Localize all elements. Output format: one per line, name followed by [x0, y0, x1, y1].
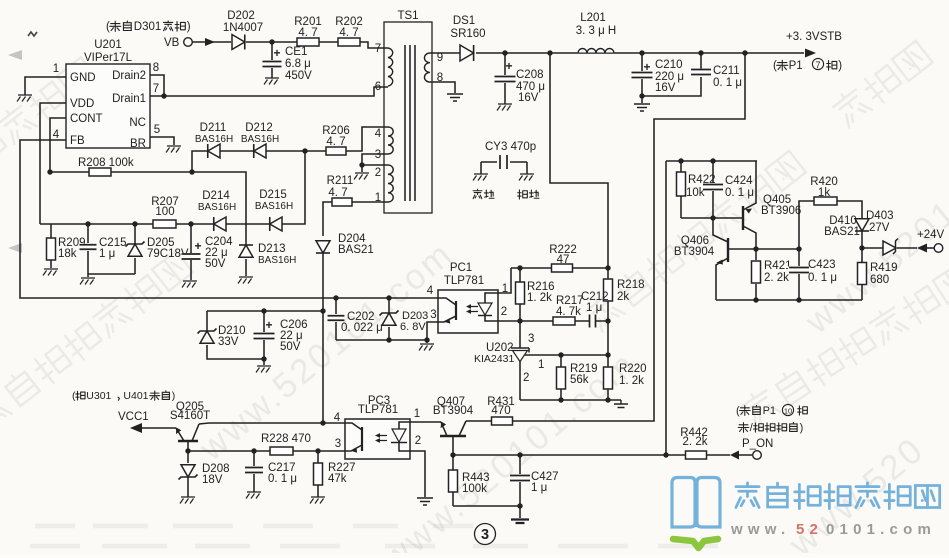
- svg-text:R208 100k: R208 100k: [78, 157, 134, 169]
- svg-text:2k: 2k: [617, 291, 629, 303]
- svg-text:D301: D301: [134, 21, 162, 33]
- node D410/R419/D403 junction: [859, 245, 864, 250]
- ground at PC3 pin2: [417, 498, 433, 505]
- wire U201 BR pin 5: [150, 137, 174, 145]
- node C208 junction: [502, 50, 507, 55]
- svg-text:680: 680: [870, 274, 889, 286]
- wire R443/C427 bottom: [453, 506, 520, 518]
- svg-text:BAS16H: BAS16H: [255, 201, 293, 212]
- svg-text:): ): [187, 21, 191, 33]
- wire +3.3V rail: [476, 52, 804, 54]
- node (to P1 pin7) note: [773, 58, 842, 72]
- wire R201 to R202: [319, 41, 339, 43]
- svg-text:4. 7k: 4. 7k: [556, 306, 581, 318]
- ground at R209: [43, 269, 58, 276]
- wire C202/D203 bottom line to PC1 pin3: [336, 322, 438, 340]
- capacitor C208 470u 16V: [494, 53, 546, 104]
- node D211 line link: [189, 169, 194, 174]
- wire to aux ground: [361, 165, 363, 172]
- wire arrow on VB line: [205, 38, 215, 46]
- svg-text:2: 2: [523, 372, 529, 384]
- svg-text:P_ON: P_ON: [742, 438, 773, 450]
- svg-text:0. 1 μ: 0. 1 μ: [268, 473, 297, 485]
- svg-text:BAS21: BAS21: [338, 244, 374, 256]
- ground below C210: [641, 96, 643, 103]
- ground at CE1: [264, 78, 279, 85]
- svg-text:VIPer17L: VIPer17L: [84, 52, 133, 64]
- capacitor CE1 6.8u 450V: [262, 42, 313, 82]
- resistor R201 4.7: [294, 16, 322, 46]
- wire U201 FB down and right (feedback line): [20, 140, 438, 298]
- svg-text:1: 1: [538, 359, 544, 371]
- ground cold (leng di): [518, 174, 539, 199]
- node VCC1 output arrow: [72, 390, 176, 433]
- transistor Q405 BT3906: [743, 161, 801, 249]
- svg-text:FB: FB: [70, 135, 85, 147]
- svg-text:L201: L201: [580, 12, 606, 24]
- diode DS1 SR160: [450, 15, 485, 61]
- svg-text:BR: BR: [130, 138, 146, 150]
- resistor R421 2.2k: [752, 249, 792, 300]
- svg-text:C208: C208: [516, 69, 544, 81]
- capacitor CY3 470p: [481, 141, 536, 174]
- wire R202 to TS1 pin 7: [360, 42, 388, 48]
- svg-text:450V: 450V: [285, 70, 312, 82]
- diode D213 BAS16H: [239, 243, 296, 276]
- svg-text:3: 3: [335, 438, 341, 450]
- svg-text:3. 3 μ H: 3. 3 μ H: [576, 25, 617, 37]
- node C424 bottom / Q406 collector: [710, 215, 715, 220]
- svg-text:GND: GND: [70, 72, 96, 84]
- ground at TS1 pin8: [447, 94, 463, 101]
- resistor R219 56k: [557, 355, 598, 400]
- ground at C427: [511, 520, 529, 524]
- capacitor C204 22u 50V: [181, 221, 234, 280]
- capacitor C424 0.1u: [702, 158, 754, 218]
- svg-text:16V: 16V: [518, 92, 539, 104]
- svg-text:10: 10: [784, 407, 792, 416]
- wire R217 line: [520, 320, 587, 322]
- node C206 line junction: [320, 308, 325, 313]
- svg-text:2: 2: [415, 435, 421, 447]
- logo book icon: [672, 478, 720, 549]
- svg-text:1 μ: 1 μ: [586, 302, 602, 314]
- wire PC3 pin2 to ground: [410, 451, 425, 497]
- diode D214 BAS16H: [198, 190, 236, 231]
- svg-text:0101.com: 0101.com: [826, 521, 936, 538]
- wire D202 to R201: [246, 41, 297, 43]
- svg-text:3: 3: [430, 309, 436, 321]
- svg-text:470: 470: [491, 405, 510, 417]
- svg-text:4: 4: [375, 128, 382, 140]
- ground at divider bottom: [614, 400, 628, 408]
- svg-text:CY3 470p: CY3 470p: [485, 141, 536, 153]
- svg-text:D202: D202: [227, 10, 255, 22]
- svg-text:6: 6: [375, 81, 381, 93]
- svg-text:0. 1 μ: 0. 1 μ: [713, 77, 742, 89]
- wire D211 line: [192, 127, 388, 172]
- svg-text:3: 3: [375, 149, 381, 161]
- node R216 top: [517, 265, 522, 270]
- svg-text:TS1: TS1: [397, 10, 418, 22]
- svg-text:Drain2: Drain2: [112, 70, 146, 82]
- logo url text: [730, 521, 936, 538]
- svg-text:+: +: [265, 318, 272, 332]
- node R220 top: [605, 352, 610, 357]
- wire U201 Drain2 pin 8: [150, 75, 164, 96]
- svg-text:4. 7: 4. 7: [298, 27, 317, 39]
- svg-text:+24V: +24V: [917, 229, 945, 241]
- svg-text:33V: 33V: [218, 336, 239, 348]
- svg-text:0. 022 μ: 0. 022 μ: [341, 322, 383, 334]
- diode D210 33V zener: [198, 311, 265, 359]
- svg-text:BT3904: BT3904: [674, 246, 715, 258]
- svg-text:50V: 50V: [280, 341, 301, 353]
- svg-text:+: +: [194, 239, 201, 253]
- node Q405 collector / Q406 base: [753, 246, 758, 251]
- node +24V input terminal: [917, 229, 945, 253]
- transistor Q406 BT3904: [674, 218, 756, 300]
- node VB input terminal: [106, 21, 192, 49]
- svg-text:(: (: [106, 21, 110, 33]
- node C210/C211 ground junction: [639, 93, 644, 98]
- svg-text:4: 4: [427, 285, 434, 297]
- inductor L201 3.3uH: [576, 12, 617, 53]
- capacitor C427 1u: [509, 452, 559, 506]
- resistor R208 100k: [47, 157, 246, 245]
- svg-text:27V: 27V: [869, 222, 890, 234]
- svg-text:+3. 3VSTB: +3. 3VSTB: [786, 31, 842, 43]
- svg-text:VCC1: VCC1: [118, 411, 149, 423]
- svg-text:U301: U301: [86, 390, 111, 402]
- svg-text:+: +: [643, 60, 650, 74]
- wire TS1 pin9 to DS1: [430, 52, 460, 54]
- svg-text:4. 7: 4. 7: [339, 27, 358, 39]
- svg-text:R419: R419: [870, 262, 898, 274]
- diode D202 1N4007: [223, 10, 263, 50]
- capacitor C212 1u: [581, 291, 609, 328]
- svg-text:6. 8V: 6. 8V: [400, 321, 426, 333]
- svg-text:NC: NC: [129, 117, 146, 129]
- svg-text:1: 1: [414, 408, 420, 420]
- svg-text:1: 1: [53, 63, 59, 75]
- ground at R227: [310, 497, 325, 504]
- node +3.3VSTB output arrow: [786, 31, 842, 58]
- wire R422/C424 bottom to Q405 base: [681, 217, 742, 219]
- svg-text:5: 5: [154, 124, 160, 136]
- wire arrow on P_ON line: [730, 451, 739, 460]
- svg-text:D211: D211: [200, 122, 227, 134]
- wire P_ON line: [453, 454, 752, 456]
- svg-text:7: 7: [375, 43, 381, 55]
- resistor R207 100: [151, 196, 179, 228]
- wire VB to D202: [192, 41, 231, 43]
- diode D211 BAS16H: [195, 122, 233, 158]
- svg-text:56k: 56k: [570, 374, 589, 386]
- svg-text:7: 7: [153, 83, 159, 95]
- svg-text:BAS16H: BAS16H: [195, 134, 233, 145]
- transformer TS1: [375, 10, 443, 213]
- svg-text:3: 3: [481, 527, 489, 543]
- svg-text:2. 2k: 2. 2k: [683, 436, 708, 448]
- wire PC1 pin2 to R216 bottom: [498, 320, 520, 322]
- svg-text:www.: www.: [730, 521, 790, 538]
- svg-text:D403: D403: [866, 210, 894, 222]
- resistor R217 4.7k: [553, 295, 584, 325]
- svg-text:R211: R211: [327, 175, 354, 187]
- ground at BR: [166, 146, 181, 153]
- node Q407 base junction: [450, 452, 455, 457]
- ground at D213: [238, 277, 253, 284]
- ground at TS1 pin2/3: [354, 173, 369, 180]
- node Drain junction: [161, 93, 166, 98]
- wire R218 bottom down: [607, 321, 609, 354]
- wire collector node to C423: [756, 248, 799, 250]
- wire U201 CONT down to R208: [50, 118, 66, 172]
- diode D410 BAS21: [824, 215, 869, 248]
- wire U201 VDD to VDD rail: [40, 103, 66, 224]
- node R206 junction: [302, 148, 307, 153]
- ground at C204: [182, 281, 197, 288]
- svg-text:SR160: SR160: [450, 28, 485, 40]
- svg-text:16V: 16V: [655, 82, 676, 94]
- svg-text:2. 2k: 2. 2k: [764, 272, 789, 284]
- svg-text:100k: 100k: [462, 483, 487, 495]
- capacitor C202 0.022u: [327, 295, 383, 340]
- svg-text:1 μ: 1 μ: [531, 482, 547, 494]
- wire U201 Drain1 pin 7 to TS1 pin 6: [150, 87, 388, 96]
- capacitor C211 0.1u: [690, 53, 742, 89]
- op-amp U201 VIPer17L controller: [53, 39, 160, 150]
- wire Q205 collector to PC3 pin4: [199, 423, 345, 424]
- diode D203 6.8V zener: [380, 295, 429, 340]
- resistor R202 4.7: [335, 16, 363, 46]
- ground at C206: [261, 356, 266, 361]
- svg-text:4: 4: [53, 129, 60, 141]
- resistor R209 18k: [47, 224, 86, 268]
- svg-text:7: 7: [815, 60, 820, 70]
- node +3.3V detour tap: [742, 50, 747, 55]
- svg-text:(: (: [72, 390, 76, 402]
- svg-text:): ): [800, 422, 804, 434]
- node PC1 pin2 / U202 ref junction: [517, 318, 522, 323]
- node PC3 pin4 junction: [320, 420, 325, 425]
- svg-text:C424: C424: [725, 175, 753, 187]
- svg-text:U201: U201: [94, 39, 122, 51]
- resistor R443 100k: [449, 455, 490, 506]
- svg-text:C210: C210: [655, 59, 683, 71]
- svg-text:+: +: [505, 59, 512, 73]
- node page number 3: [475, 524, 496, 545]
- svg-text:BT3904: BT3904: [433, 405, 474, 417]
- wire D204 down to C206 node: [322, 253, 324, 311]
- svg-text:4. 7: 4. 7: [326, 136, 345, 148]
- wire +3.3V detour down-left-down to R431: [512, 53, 745, 421]
- capacitor C210 220u 16V: [631, 53, 685, 96]
- svg-text:2: 2: [501, 306, 507, 318]
- svg-text:S4160T: S4160T: [170, 410, 210, 422]
- svg-text:1 μ: 1 μ: [99, 248, 115, 260]
- svg-text:KIA2431: KIA2431: [474, 353, 514, 365]
- ground at C215: [87, 274, 89, 277]
- resistor R227 47k: [314, 448, 356, 497]
- wire feedback tap down to R222 rail: [550, 53, 608, 268]
- diode D208 18V zener: [179, 451, 230, 497]
- svg-text:R421: R421: [764, 260, 792, 272]
- wire down to PC3 pin4: [322, 311, 324, 423]
- wire base line to PC3 pin3: [188, 450, 345, 452]
- diode D403 27V zener: [862, 210, 917, 255]
- svg-text:9: 9: [437, 52, 443, 64]
- wire VDD rail: [40, 151, 305, 224]
- node PC1 pin3 ground junction: [424, 337, 429, 342]
- diode D205 79C18V zener: [126, 221, 189, 274]
- svg-text:1. 2k: 1. 2k: [619, 375, 644, 387]
- svg-text:CE1: CE1: [285, 46, 307, 58]
- svg-text:D213: D213: [258, 243, 286, 255]
- ground at D208: [180, 497, 195, 504]
- wire PC1 pin1 up to R222 rail: [498, 268, 511, 293]
- resistor R222 47: [549, 244, 577, 272]
- wire U202 bottom line: [520, 399, 621, 401]
- diode D212 BAS16H: [241, 122, 279, 158]
- diode D215 BAS16H: [255, 189, 293, 231]
- svg-text:P1: P1: [789, 60, 803, 72]
- svg-text:VB: VB: [164, 37, 180, 49]
- svg-text:BAS21: BAS21: [824, 226, 860, 238]
- svg-text:D212: D212: [245, 122, 273, 134]
- wire Q405 block bottom rail: [716, 299, 862, 301]
- svg-text:BAS16H: BAS16H: [258, 255, 296, 266]
- svg-text:TLP781: TLP781: [444, 275, 484, 287]
- node feedback tap: [547, 50, 552, 55]
- svg-text:0. 1 μ: 0. 1 μ: [808, 272, 837, 284]
- svg-text:BAS16H: BAS16H: [198, 202, 236, 213]
- svg-text:18k: 18k: [58, 248, 77, 260]
- node C210 junction: [639, 50, 644, 55]
- diode D204 BAS21: [316, 233, 374, 256]
- svg-text:1N4007: 1N4007: [223, 22, 263, 34]
- svg-text:3: 3: [528, 333, 534, 345]
- svg-text:P1: P1: [763, 405, 776, 417]
- node pin2/3 junction: [359, 162, 364, 167]
- wire TS1 pin8 to ground: [430, 82, 455, 93]
- transistor Q407 BT3904: [433, 396, 474, 455]
- op-amp PC3 TLP781 optocoupler: [334, 395, 421, 459]
- ground at PC1 pin3 line: [426, 340, 428, 343]
- svg-text:47k: 47k: [328, 473, 347, 485]
- ground at U201 pin1: [17, 95, 32, 102]
- resistor R216 1.2k: [516, 268, 555, 321]
- svg-text:52: 52: [796, 521, 823, 538]
- svg-text:R218: R218: [617, 279, 645, 291]
- capacitor C206 22u 50V: [253, 308, 308, 359]
- node line B junction: [663, 452, 668, 457]
- resistor R228 470: [261, 433, 311, 455]
- svg-text:TLP781: TLP781: [358, 404, 398, 416]
- logo chinese text: [736, 483, 940, 509]
- wire U201 GND pin 1: [25, 77, 66, 95]
- node R218 bottom: [605, 318, 610, 323]
- wire R222 rail: [511, 267, 608, 269]
- svg-text:0. 1 μ: 0. 1 μ: [725, 187, 754, 199]
- node Q205 base junction: [185, 448, 190, 453]
- op-amp U202 KIA2431 shunt regulator: [474, 321, 608, 400]
- svg-text:4. 7: 4. 7: [328, 187, 347, 199]
- resistor R218 2k: [604, 268, 645, 321]
- svg-text:PC1: PC1: [450, 262, 472, 274]
- node CE1 junction: [269, 39, 274, 44]
- svg-text:): ): [838, 60, 842, 72]
- svg-text:Drain1: Drain1: [112, 93, 146, 105]
- svg-text:100: 100: [155, 206, 174, 218]
- svg-text:CONT: CONT: [70, 113, 103, 125]
- ground at C217: [246, 492, 261, 499]
- svg-text:6.8 μ: 6.8 μ: [285, 58, 311, 70]
- svg-text:10k: 10k: [686, 187, 705, 199]
- svg-text:U401: U401: [123, 390, 148, 402]
- svg-text:C211: C211: [713, 65, 740, 77]
- svg-text:C423: C423: [808, 259, 836, 271]
- resistor R206 4.7: [322, 125, 350, 155]
- wire C211 bottom to junction: [642, 77, 701, 96]
- svg-text:2: 2: [375, 167, 381, 179]
- op-amp PC1 TLP781 optocoupler: [427, 262, 508, 333]
- node R219 top: [558, 352, 563, 357]
- wire C206 line: [207, 310, 323, 312]
- svg-text:8: 8: [153, 62, 159, 74]
- svg-text:): ): [172, 390, 176, 402]
- node R218 top: [605, 265, 610, 270]
- capacitor C423 0.1u: [788, 246, 837, 300]
- ground at C208: [497, 104, 512, 111]
- resistor R431 470: [466, 396, 515, 425]
- svg-text:D215: D215: [259, 189, 287, 201]
- resistor R422 10k: [677, 158, 716, 218]
- svg-text:VDD: VDD: [70, 98, 94, 110]
- svg-text:R220: R220: [619, 363, 647, 375]
- svg-text:(: (: [773, 60, 777, 72]
- svg-text:DS1: DS1: [453, 15, 475, 27]
- capacitor C217 0.1u: [244, 448, 297, 492]
- node D203 bottom: [386, 337, 391, 342]
- resistor R420 1k: [799, 176, 862, 249]
- svg-text:18V: 18V: [202, 474, 223, 486]
- node C211 top: [698, 50, 703, 55]
- svg-text:+: +: [273, 46, 280, 60]
- wire PC3 pin1 to Q407 emitter: [410, 421, 441, 423]
- wire Q405 block top rail: [666, 160, 757, 162]
- capacitor C215 1u: [79, 221, 136, 274]
- resistor R211 4.7: [323, 175, 388, 236]
- resistor R220 1.2k: [604, 355, 647, 400]
- resistor R442 2.2k: [680, 427, 708, 459]
- svg-text:4: 4: [334, 412, 341, 424]
- svg-text:BT3906: BT3906: [761, 205, 801, 217]
- svg-text:1. 2k: 1. 2k: [527, 292, 552, 304]
- wire TS1 pin3 and pin2 tie: [362, 154, 388, 165]
- resistor R419 680: [858, 248, 898, 300]
- svg-text:D214: D214: [202, 190, 230, 202]
- wire line B down to P_ON: [665, 161, 667, 455]
- ground hot (re di): [473, 174, 494, 199]
- transistor Q205 S4160T: [170, 401, 210, 451]
- svg-text:50V: 50V: [205, 258, 226, 270]
- node P_ON terminal: [736, 404, 807, 459]
- svg-text:R228 470: R228 470: [261, 433, 311, 445]
- svg-text:BAS16H: BAS16H: [241, 134, 279, 145]
